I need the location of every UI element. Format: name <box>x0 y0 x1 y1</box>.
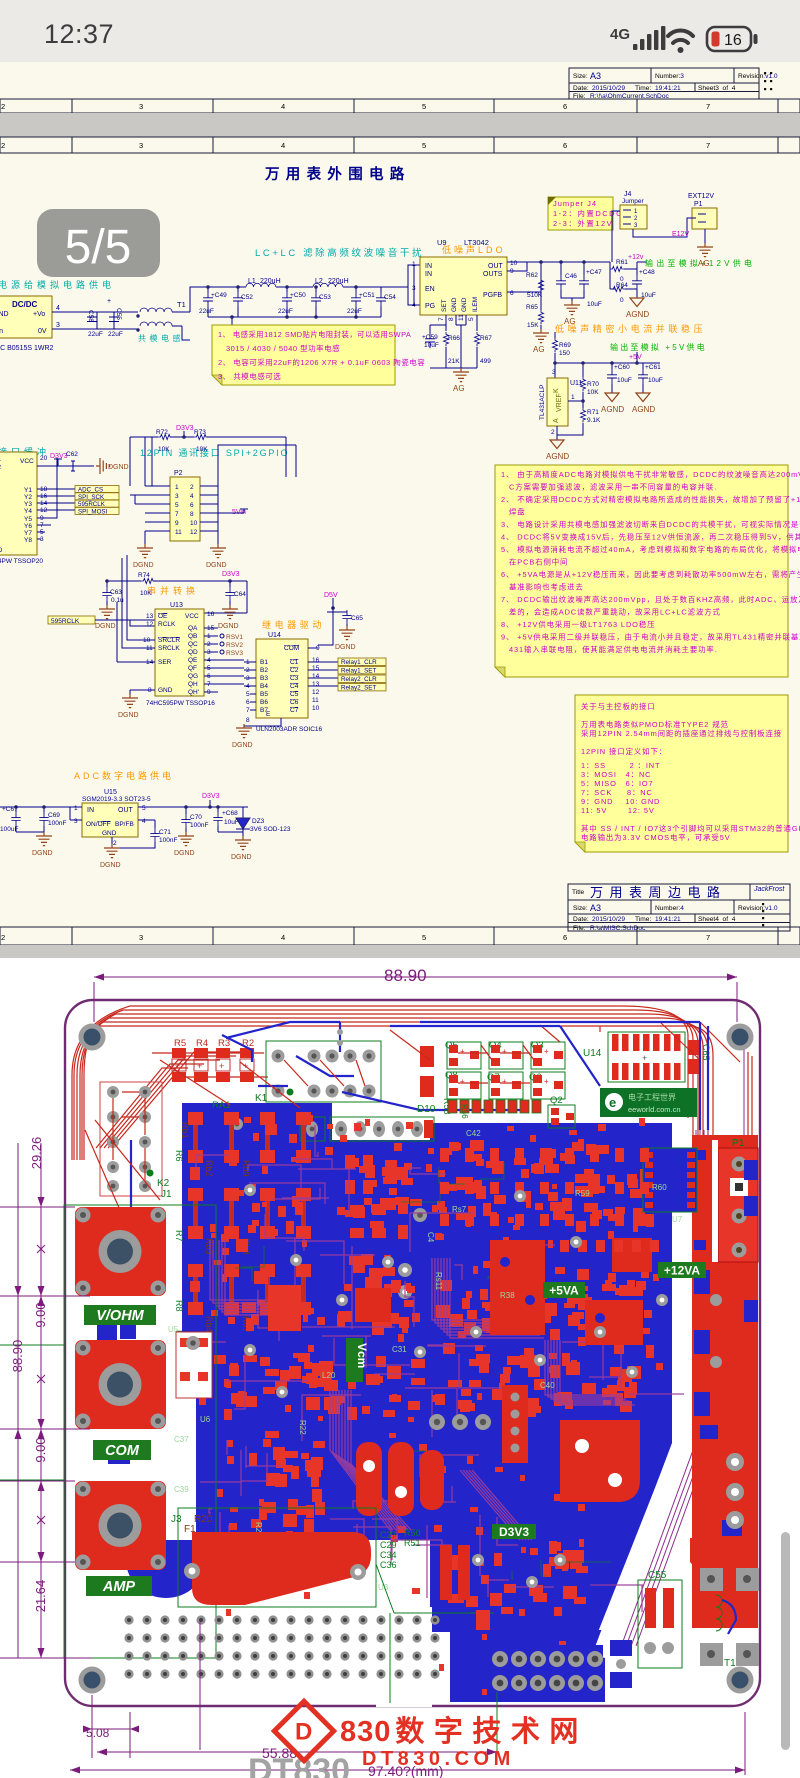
shift register U13 74HC595 <box>143 602 215 707</box>
blue copper pour regions <box>126 1103 672 1702</box>
svg-text:AGND: AGND <box>601 405 624 414</box>
svg-text:C3: C3 <box>290 675 299 682</box>
svg-text:8、 +12V供电采用一级LT1763 LDO稳压: 8、 +12V供电采用一级LT1763 LDO稳压 <box>501 620 655 629</box>
svg-text:22uF: 22uF <box>278 308 293 315</box>
svg-text:IN: IN <box>87 807 94 814</box>
svg-text:输出至模拟 +5V供电: 输出至模拟 +5V供电 <box>610 342 707 352</box>
svg-text:100nF: 100nF <box>159 837 177 844</box>
junction dots LC rail <box>206 285 358 319</box>
wire U14 inputs <box>244 662 256 710</box>
svg-text:R72: R72 <box>156 429 168 436</box>
resistor R62 510K <box>526 272 544 299</box>
svg-text:R8: R8 <box>174 1300 184 1312</box>
pin header 2x6 <box>487 1645 603 1697</box>
net label +12VA <box>658 1262 706 1278</box>
svg-text:9.00: 9.00 <box>33 1302 48 1327</box>
svg-text:10uF: 10uF <box>424 342 439 349</box>
wire U14 emitter to ground <box>244 718 281 726</box>
svg-text:R5: R5 <box>174 1038 186 1049</box>
svg-text:DGND: DGND <box>108 464 129 471</box>
svg-text:+: + <box>107 298 111 305</box>
svg-text:5: 5 <box>175 502 179 509</box>
svg-text:E12V: E12V <box>672 231 689 238</box>
svg-text:DGND: DGND <box>32 850 53 857</box>
svg-text:6: 6 <box>563 933 567 942</box>
ground DGND under U15 <box>100 837 121 869</box>
svg-text:3: 3 <box>175 493 179 500</box>
resistors R5 R4 R3 R2 (pcb) <box>174 1038 254 1049</box>
resistor R73 10K pullup <box>194 429 208 453</box>
svg-text:A3: A3 <box>590 71 601 81</box>
net label AMP <box>86 1576 152 1596</box>
svg-text:11: 11 <box>312 697 319 704</box>
svg-text:3015 / 4030 / 5040 型功率电感: 3015 / 4030 / 5040 型功率电感 <box>226 343 340 353</box>
note N2 design points <box>495 465 800 677</box>
red right column <box>692 1135 758 1628</box>
regulator U9 LT3042 <box>412 257 518 321</box>
svg-text:4: 4 <box>281 141 285 150</box>
left dimension lines <box>0 1143 92 1658</box>
svg-text:R61: R61 <box>616 259 628 266</box>
svg-text:8: 8 <box>190 511 194 518</box>
svg-text:DGND: DGND <box>218 623 239 630</box>
svg-text:Sheet3 of 4: Sheet3 of 4 <box>698 85 736 92</box>
svg-text:Y5: Y5 <box>24 516 32 523</box>
svg-text:3: 3 <box>56 322 60 329</box>
svg-text:+: + <box>502 1047 507 1056</box>
svg-text:D: D <box>295 1719 312 1746</box>
svg-text:15K: 15K <box>527 322 539 329</box>
svg-text:C53: C53 <box>319 294 331 301</box>
svg-text:88.90: 88.90 <box>384 966 427 985</box>
dense central cluster <box>190 1115 663 1695</box>
svg-text:R60: R60 <box>652 1183 667 1192</box>
svg-text:5.08: 5.08 <box>86 1726 110 1740</box>
svg-text:其中 SS / INT / IO7这3个引脚均可以采用STM: 其中 SS / INT / IO7这3个引脚均可以采用STM32的普通GPIO <box>581 824 800 833</box>
svg-text:File:: File: <box>573 925 586 932</box>
transistors Q5 Q4 Q3 Q8 Q7 Q6 <box>445 1040 565 1119</box>
svg-text:DC/DC: DC/DC <box>12 300 38 309</box>
svg-text:EN: EN <box>425 286 435 293</box>
svg-text:C4: C4 <box>290 683 299 690</box>
svg-text:COM: COM <box>105 1443 140 1459</box>
svg-text:+: + <box>544 1077 549 1086</box>
blue thick trace from K2 to post1 <box>130 1140 132 1207</box>
svg-text:K1: K1 <box>255 1093 268 1104</box>
svg-text:DGND: DGND <box>133 562 154 569</box>
svg-text:4: 4 <box>56 305 60 312</box>
svg-text:5: 5 <box>422 933 426 942</box>
svg-text:13: 13 <box>146 613 154 620</box>
svg-text:Y3: Y3 <box>24 501 32 508</box>
red mass right <box>560 1420 640 1502</box>
filter caps C49 C52 C50 C53 C51 C54 <box>199 292 396 315</box>
svg-text:GND: GND <box>461 297 468 312</box>
svg-text:AGND: AGND <box>632 405 655 414</box>
ground DGND under C64 <box>218 605 239 630</box>
svg-text:e: e <box>609 1095 616 1110</box>
wire C46/C47 ground link <box>561 290 584 302</box>
svg-text:+: + <box>219 1061 224 1071</box>
svg-text:eeworld.com.cn: eeworld.com.cn <box>628 1105 681 1114</box>
svg-text:22uF: 22uF <box>347 308 362 315</box>
+12v power label <box>628 254 644 261</box>
prototyping dot grid <box>124 1615 439 1678</box>
svg-text:29.26: 29.26 <box>29 1137 44 1170</box>
svg-text:2: 2 <box>113 840 117 847</box>
dimension 88.90 top <box>94 974 737 1023</box>
svg-text:10: 10 <box>510 260 518 267</box>
svg-text:16: 16 <box>207 611 215 618</box>
SMD clusters on blue field <box>174 1112 311 1342</box>
svg-text:7: 7 <box>706 933 710 942</box>
svg-text:R67: R67 <box>480 335 492 342</box>
svg-text:Q2: Q2 <box>550 1095 563 1106</box>
capacitor C68 <box>213 810 243 832</box>
blue cutouts in red column <box>694 1160 758 1567</box>
svg-text:J3: J3 <box>171 1514 182 1525</box>
svg-text:+: + <box>502 1077 507 1086</box>
capacitor C55 (pcb bottom) <box>638 1570 682 1668</box>
svg-text:GND: GND <box>451 297 458 312</box>
big red F1 shape <box>192 1532 371 1605</box>
svg-text:A: A <box>553 418 560 423</box>
gray pad trio <box>429 1414 445 1430</box>
svg-text:万用表电路类似PMOD标准TYPE2 规范: 万用表电路类似PMOD标准TYPE2 规范 <box>581 720 729 729</box>
svg-text:SRCLK: SRCLK <box>158 645 180 652</box>
net label COM <box>93 1440 151 1460</box>
capacitor C58 <box>87 310 103 338</box>
svg-text:12: 12 <box>146 621 154 628</box>
wire U9 output rail <box>507 262 610 292</box>
svg-text:3: 3 <box>139 102 143 111</box>
svg-text:DGND: DGND <box>335 644 356 651</box>
svg-text:+C49: +C49 <box>211 292 227 299</box>
svg-text:ULN2003ADR SOIC16: ULN2003ADR SOIC16 <box>256 726 322 733</box>
net label V/OHM <box>84 1305 156 1325</box>
svg-text:GND: GND <box>158 687 173 694</box>
svg-text:SGM2019-3.3 SOT23-5: SGM2019-3.3 SOT23-5 <box>82 796 151 803</box>
svg-text:6: 6 <box>190 502 194 509</box>
tiny silkscreen labels on blue <box>168 1129 683 1592</box>
svg-text:GND: GND <box>0 547 3 554</box>
svg-text:74HC595PW TSSOP16: 74HC595PW TSSOP16 <box>146 700 215 707</box>
svg-text:4、 DCDC将5V变换成15V后，先稳压至12V供恒流源，: 4、 DCDC将5V变换成15V后，先稳压至12V供恒流源，再二次稳压得到5V，… <box>501 533 800 542</box>
svg-text:C55: C55 <box>648 1570 667 1581</box>
resistor R74 10K <box>138 572 155 597</box>
svg-text:+: + <box>197 1061 202 1071</box>
wire U12 lower outputs <box>37 458 57 539</box>
svg-text:Y2: Y2 <box>24 494 32 501</box>
svg-text:U13: U13 <box>170 602 183 609</box>
svg-text:DGND: DGND <box>206 562 227 569</box>
small parts between posts <box>97 1322 136 1612</box>
svg-text:+: + <box>460 1047 465 1056</box>
capacitor C60 <box>607 364 632 393</box>
capacitor C47 <box>579 269 602 308</box>
svg-text:B5: B5 <box>260 691 268 698</box>
svg-text:2、 电容可采用22uF的1206 X7R + 0.1uF: 2、 电容可采用22uF的1206 X7R + 0.1uF 0603 陶瓷电容 <box>218 357 425 367</box>
capacitor C63 0.1u <box>102 587 124 609</box>
resistor R64 0 <box>610 282 637 304</box>
resistor R69 150 <box>552 332 571 363</box>
wire U11 to AGND <box>557 423 583 440</box>
svg-text:6: 6 <box>563 102 567 111</box>
svg-text:Size:: Size: <box>573 73 588 80</box>
svg-text:在PCB右侧中间: 在PCB右侧中间 <box>509 558 568 567</box>
svg-text:4G: 4G <box>610 26 630 43</box>
svg-text:6: 6 <box>246 699 250 706</box>
connector P2 12pin <box>145 470 218 541</box>
connector strip middle <box>300 1117 434 1141</box>
svg-text:C27: C27 <box>380 1530 397 1540</box>
svg-text:3: 3 <box>139 141 143 150</box>
svg-text:VCC: VCC <box>185 613 199 620</box>
svg-text:ADC_CS: ADC_CS <box>78 487 103 494</box>
svg-text:电路输出为3.3V CMOS电平，可承受5V: 电路输出为3.3V CMOS电平，可承受5V <box>581 833 731 842</box>
svg-text:2015/10/29: 2015/10/29 <box>592 916 625 923</box>
svg-text:E: E <box>266 711 271 718</box>
svg-text:+: + <box>544 1047 549 1056</box>
svg-text:Relay2_CLR: Relay2_CLR <box>341 676 377 683</box>
right edge red/purple pair <box>744 1048 752 1140</box>
junction dots U9 rail <box>539 260 586 264</box>
resistor R65 15K <box>526 292 544 331</box>
svg-text:Rb4: Rb4 <box>204 1316 214 1333</box>
svg-text:499: 499 <box>480 358 491 365</box>
svg-text:DZ3: DZ3 <box>252 818 265 825</box>
U2 pins <box>645 1152 695 1208</box>
svg-text:C5: C5 <box>290 691 299 698</box>
svg-text:差的，会造成ADC读数严重跳动，故采用LC+LC滤波方式: 差的，会造成ADC读数严重跳动，故采用LC+LC滤波方式 <box>509 608 721 617</box>
svg-text:R4: R4 <box>196 1038 208 1049</box>
svg-text:830数字技术网: 830数字技术网 <box>340 1714 588 1748</box>
svg-text:DGND: DGND <box>100 862 121 869</box>
svg-text:J1: J1 <box>161 1189 172 1200</box>
svg-text:19:41:21: 19:41:21 <box>655 85 681 92</box>
svg-text:Vin: Vin <box>0 328 3 335</box>
svg-text:+C51: +C51 <box>359 292 375 299</box>
power D3V3 + C62 + DGND over U12 <box>37 451 129 474</box>
svg-text:Time:: Time: <box>635 916 651 923</box>
svg-text:QH: QH <box>188 681 198 688</box>
svg-text:C2: C2 <box>290 667 299 674</box>
svg-text:Relay1_CLR: Relay1_CLR <box>341 659 377 666</box>
svg-text:VREF: VREF <box>556 393 563 412</box>
svg-text:J4: J4 <box>624 191 632 198</box>
svg-text:2、 不确定采用DCDC方式对精密模拟电路所造成的性能损失，: 2、 不确定采用DCDC方式对精密模拟电路所造成的性能损失，故增加了预留了+15… <box>501 495 800 504</box>
svg-text:10: 10 <box>190 520 198 527</box>
svg-text:RSV2: RSV2 <box>226 642 243 649</box>
svg-text:Y7: Y7 <box>24 530 32 537</box>
svg-text:P1: P1 <box>694 201 703 208</box>
svg-text:R50: R50 <box>404 1528 421 1538</box>
title block sheet1 <box>569 68 759 99</box>
svg-text:C29: C29 <box>380 1540 397 1550</box>
svg-text:15: 15 <box>312 665 320 672</box>
svg-text:QD: QD <box>188 649 198 656</box>
svg-text:DGND: DGND <box>174 850 195 857</box>
svg-text:Size:: Size: <box>573 905 588 912</box>
svg-text:RSV3: RSV3 <box>226 650 243 657</box>
ground AG under C46 C47 <box>564 301 580 326</box>
white diagonal channel <box>672 1118 692 1445</box>
svg-text:OE: OE <box>158 613 168 620</box>
svg-text:2: 2 <box>1 102 5 111</box>
svg-text:TL431ACLP: TL431ACLP <box>539 385 546 420</box>
svg-text:万用表周边电路: 万用表周边电路 <box>590 885 727 900</box>
svg-text:7: 7 <box>438 317 445 321</box>
svg-text:+C48: +C48 <box>639 269 655 276</box>
svg-text:LT3042: LT3042 <box>464 238 489 247</box>
svg-text:K2: K2 <box>157 1178 170 1189</box>
svg-text:RA1: RA1 <box>212 1100 230 1111</box>
capacitor C70 <box>181 814 208 836</box>
svg-text:C7: C7 <box>290 707 299 714</box>
svg-text:Rb9: Rb9 <box>241 1160 251 1177</box>
svg-text:V/OHM: V/OHM <box>96 1308 144 1324</box>
svg-text:串并转换: 串并转换 <box>147 585 199 596</box>
resistor R70 10K <box>580 377 599 396</box>
svg-text:1-2：内置DCDC: 1-2：内置DCDC <box>553 208 623 218</box>
svg-text:C39: C39 <box>174 1485 189 1494</box>
svg-text:+C68: +C68 <box>222 810 238 817</box>
svg-text:9: 9 <box>175 520 179 527</box>
svg-text:OUT: OUT <box>488 263 504 270</box>
svg-text:PGFB: PGFB <box>483 292 502 299</box>
svg-text:低噪声精密小电流并联稳压: 低噪声精密小电流并联稳压 <box>555 323 706 334</box>
power D5V + C65 <box>308 592 363 651</box>
wire cap stubs <box>208 287 381 292</box>
power D3V3 <box>130 425 194 439</box>
ground AGND under C48 <box>626 298 649 319</box>
svg-text:OUTS: OUTS <box>483 271 503 278</box>
inductor L2 <box>313 278 349 287</box>
svg-text:11: 5V 12: 5V: 11: 5V 12: 5V <box>581 806 655 815</box>
wire net E12V <box>612 211 705 262</box>
page badge 5/5 <box>37 209 160 277</box>
svg-text:+12v: +12v <box>628 254 644 261</box>
svg-text:R62: R62 <box>526 272 538 279</box>
wire U13 left pins <box>117 555 155 698</box>
svg-text:7：SCK 8：NC: 7：SCK 8：NC <box>581 788 653 797</box>
wire U11 pin1 to R70/R71 <box>568 392 583 408</box>
svg-text:D3V3: D3V3 <box>222 571 240 578</box>
svg-text:5：MISO 6：IO7: 5：MISO 6：IO7 <box>581 779 654 788</box>
svg-text:ILEM: ILEM <box>472 297 479 312</box>
wire LC top rail <box>190 265 420 312</box>
svg-text:Y1: Y1 <box>24 487 32 494</box>
svg-text:T1: T1 <box>177 300 186 309</box>
svg-text:595RCLK: 595RCLK <box>51 618 80 625</box>
status bar <box>0 0 800 62</box>
svg-text:C62: C62 <box>66 451 78 458</box>
svg-text:U14: U14 <box>268 632 281 639</box>
ground DGND under C69 <box>32 832 53 857</box>
svg-text:21K: 21K <box>448 358 460 365</box>
svg-text:19:41:21: 19:41:21 <box>655 916 681 923</box>
svg-text:Number:3: Number:3 <box>655 73 684 80</box>
signal bars <box>633 26 665 50</box>
svg-text:P1: P1 <box>732 1138 745 1149</box>
wire P2 bus <box>130 437 296 504</box>
labels C27 C29 C34 C36 R50 R51 <box>380 1528 421 1570</box>
transformer T1 (pcb) <box>700 1568 759 1669</box>
svg-text:220uH: 220uH <box>260 278 281 285</box>
driver U14 ULN2003 <box>246 632 322 733</box>
svg-text:10uF: 10uF <box>224 819 239 826</box>
svg-text:Relay1_SET: Relay1_SET <box>341 668 377 675</box>
capacitor C48 <box>632 269 656 299</box>
svg-text:QG: QG <box>188 673 198 680</box>
svg-text:P2: P2 <box>174 470 183 477</box>
svg-text:Rb1: Rb1 <box>180 1122 190 1139</box>
svg-text:B6: B6 <box>260 699 268 706</box>
gray band between sheets <box>0 113 800 137</box>
PCB white background <box>0 958 800 1778</box>
svg-text:1: 1 <box>175 484 179 491</box>
note Jumper J4 <box>548 197 623 230</box>
sheet 2 background <box>0 137 800 958</box>
cluster under K1 <box>345 1155 427 1299</box>
regulator U15 SGM2019 <box>74 789 151 847</box>
svg-text:3、 电路设计采用共模电感加强滤波切断来自DCDC的共模干扰: 3、 电路设计采用共模电感加强滤波切断来自DCDC的共模干扰，可视实际情况是否焊… <box>501 520 800 529</box>
ground AG under R65 <box>533 329 549 354</box>
wire +Vo/0V rails <box>52 312 138 329</box>
capacitor C69 <box>39 812 66 836</box>
svg-text:Relay2_SET: Relay2_SET <box>341 685 377 692</box>
svg-text:R51: R51 <box>404 1538 421 1548</box>
svg-text:ADC数字电路供电: ADC数字电路供电 <box>74 770 174 781</box>
ruler band sheet2 bottom <box>0 927 800 945</box>
inductor L1 <box>246 278 281 287</box>
svg-text:COM: COM <box>284 645 299 652</box>
svg-text:7、 DCDC输出纹波噪声高达200mVpp，且处于数百KH: 7、 DCDC输出纹波噪声高达200mVpp，且处于数百KHZ高频，此时ADC、… <box>501 595 800 604</box>
svg-text:3: 3 <box>552 369 556 376</box>
svg-text:AGND: AGND <box>626 310 649 319</box>
svg-text:Rb2: Rb2 <box>204 1160 214 1177</box>
ground DGND under P2 right <box>206 544 227 569</box>
svg-text:PG: PG <box>425 303 435 310</box>
wire R74 net <box>107 581 247 613</box>
svg-text:9：GND 10: GND: 9：GND 10: GND <box>581 797 660 806</box>
ground DGND under U13 <box>118 694 139 719</box>
svg-text:EXT12V: EXT12V <box>688 193 714 200</box>
svg-text:SER: SER <box>158 659 172 666</box>
svg-text:2: 2 <box>1 141 5 150</box>
svg-text:IN: IN <box>425 271 432 278</box>
svg-text:431输入串联电阻，使其能满足供电电流并消耗主要功率.: 431输入串联电阻，使其能满足供电电流并消耗主要功率. <box>509 645 718 654</box>
svg-text:12: 12 <box>190 529 198 536</box>
note N3 interface description <box>575 695 800 852</box>
svg-text:2015/10/29: 2015/10/29 <box>592 85 625 92</box>
relay K1 <box>222 1022 520 1110</box>
svg-text:C1: C1 <box>290 659 299 666</box>
ground DGND under DZ3 <box>231 836 252 861</box>
left diagonal red fan <box>96 1052 252 1148</box>
wire U13 outputs <box>204 628 244 692</box>
white notch bottom-left of tongue <box>376 1607 432 1707</box>
svg-text:0: 0 <box>620 297 624 304</box>
svg-text:B4: B4 <box>260 683 268 690</box>
svg-text:B1: B1 <box>260 659 268 666</box>
svg-text:R66: R66 <box>448 335 460 342</box>
svg-text:10uF: 10uF <box>617 377 632 384</box>
buffer U12 74HC244 <box>0 452 48 565</box>
svg-text:7: 7 <box>706 102 710 111</box>
wire U15 output rail D3V3 <box>138 800 248 814</box>
svg-text:U14: U14 <box>583 1048 602 1059</box>
